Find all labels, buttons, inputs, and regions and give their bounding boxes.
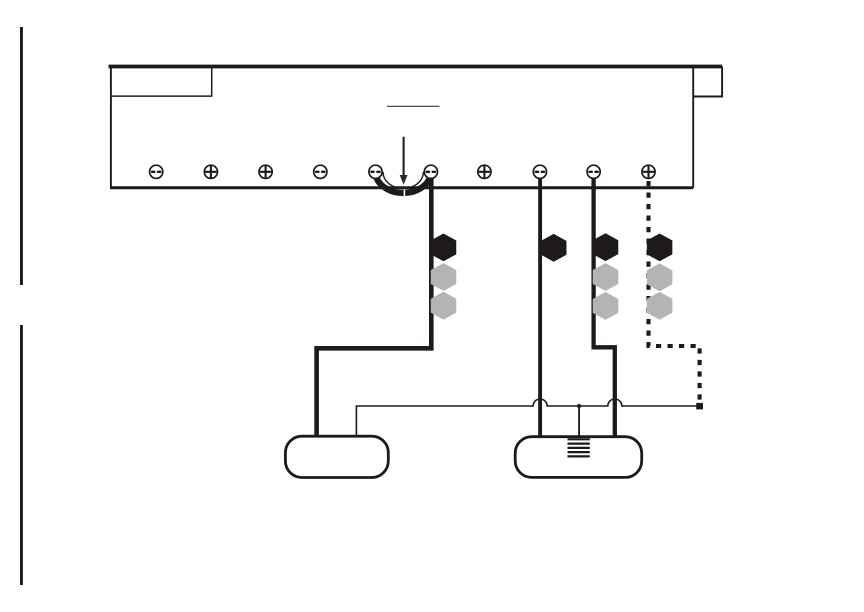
valve 2 (right rounded box) [515,437,642,478]
instruction arrow pointing at jumper [403,137,405,177]
wire nut (gray) on wire W3 lower [593,292,619,320]
page margin bar 2 [20,325,23,585]
terminal screw T2 (phillips) [204,165,217,178]
wire nut (black) on wire W1 [431,234,457,262]
battery compartment rectangle (top-left) [111,67,212,97]
page margin bar 1 [20,27,23,285]
terminal screw T6 (slot) [424,165,437,178]
terminal screw T7 (phillips) [478,165,491,178]
wire nut (black) on wire W2 [541,234,567,262]
terminal screw T5 (slot) [369,165,382,178]
jumper wire between terminals 5 and 6 (thick outer loop) [376,172,431,193]
wire W3: from terminal 9 to right valve [594,172,615,437]
terminal screw T9 (slot) [587,165,600,178]
thin wire from junction down to solenoid [578,406,580,440]
square terminal dot at end of dashed wire [696,403,703,410]
controller terminal strip: top edge [109,65,723,69]
terminal screw T3 (phillips) [259,165,272,178]
terminal screw T4 (slot) [314,165,327,178]
controller terminal strip: bottom edge [110,186,693,189]
jumper wire inner highlight arc [383,172,423,189]
wire nut (gray) on wire W1 lower [431,292,457,320]
common wire (thin) with hop-overs [356,399,699,437]
white tick on jumper bottom [403,190,405,198]
label underline above arrow [387,105,440,107]
wire nut (black) on wire W3 [593,233,619,261]
terminal screw T1 (slot) [150,165,163,178]
solenoid hatch inside valve 2 [568,439,590,456]
terminal screw T8 (slot) [533,165,546,178]
junction node dot on common wire [577,404,581,408]
wire W4: dashed master valve wire from terminal 10 [649,181,700,404]
wire W2: from terminal 8 straight down to right valve [538,172,542,437]
wire nut (gray) on wire W4 lower [647,292,673,320]
wire nut (gray) on wire W1 [431,263,457,291]
valve 1 (left rounded box) [285,436,388,477]
terminal screw T10 (phillips) [642,165,655,178]
wire nut (gray) on wire W3 [593,263,619,291]
controller terminal strip: right edge [692,67,694,188]
wire W1: valve 1 wire from terminal 6 to left valve [317,172,432,437]
wire nut (black) on wire W4 [647,234,673,262]
wire nut (gray) on wire W4 [647,263,673,291]
controller terminal strip: left edge [110,67,112,188]
transformer tab (top-right) [693,67,722,97]
